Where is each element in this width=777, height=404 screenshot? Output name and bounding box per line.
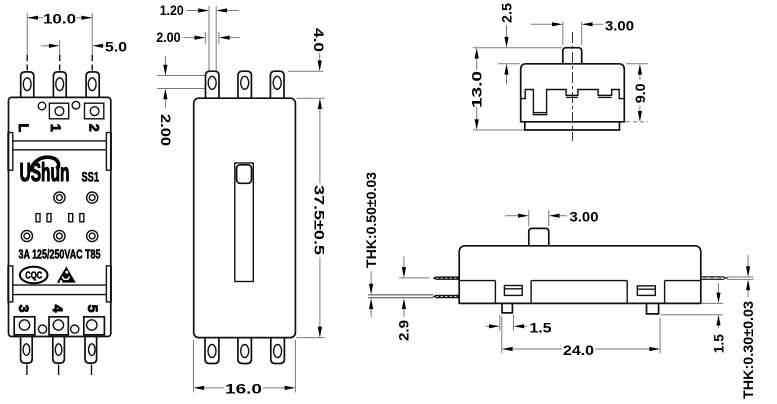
svg-text:1.5: 1.5 bbox=[710, 334, 726, 353]
side body outline bbox=[459, 246, 701, 304]
terminal edge tick left bbox=[204, 32, 206, 44]
dimension 3.00 top bbox=[531, 17, 634, 33]
knob top extension line bbox=[473, 47, 562, 49]
svg-text:2: 2 bbox=[87, 124, 103, 132]
UShun logo swoosh bbox=[30, 157, 59, 172]
left mounting foot bbox=[502, 303, 512, 313]
svg-text:1.5: 1.5 bbox=[530, 319, 552, 335]
svg-text:THK:0.50±0.03: THK:0.50±0.03 bbox=[363, 172, 379, 268]
rear terminal 3 bbox=[270, 71, 284, 98]
vent slot 3 bbox=[69, 214, 73, 222]
foot width extension left bbox=[499, 315, 501, 331]
svg-text:1.20: 1.20 bbox=[160, 2, 184, 18]
dimension 1.20 bbox=[160, 2, 239, 18]
right terminal pin bbox=[701, 277, 727, 280]
top terminal pin 3 bbox=[86, 55, 99, 97]
svg-text:3.00: 3.00 bbox=[570, 209, 599, 225]
svg-text:2.5: 2.5 bbox=[499, 3, 515, 23]
foot bottom extension right bbox=[661, 314, 723, 316]
contact square 1 with circle bbox=[49, 103, 68, 119]
dimension 13.0 bbox=[469, 48, 485, 130]
extension line middle terminal center bbox=[59, 40, 61, 55]
svg-text:9.0: 9.0 bbox=[632, 83, 648, 103]
internal stepped profile bbox=[521, 90, 625, 115]
dimension 4.0 bbox=[311, 28, 327, 71]
vent slot 4 bbox=[80, 214, 84, 222]
dimension 37.5±0.5 bbox=[311, 98, 327, 337]
svg-text:16.0: 16.0 bbox=[225, 381, 262, 397]
top terminal pin 2 bbox=[53, 55, 66, 97]
dimension 2.5 bbox=[499, 3, 515, 84]
base pedestal bbox=[525, 122, 620, 130]
svg-text:2.9: 2.9 bbox=[396, 320, 412, 341]
lower right side tab bbox=[106, 266, 111, 302]
right pocket wall a bbox=[626, 281, 628, 304]
svg-text:3A 125/250VAC T85: 3A 125/250VAC T85 bbox=[19, 247, 101, 262]
right mounting foot bbox=[647, 303, 659, 314]
side view: switch profile with terminals bbox=[363, 172, 756, 399]
terminal top extension line right bbox=[288, 70, 324, 72]
actuator knob bbox=[563, 48, 582, 64]
svg-text:5: 5 bbox=[85, 305, 101, 313]
width extension line right bbox=[294, 340, 296, 393]
top view: switch end profile bbox=[469, 3, 648, 141]
foot width extension right bbox=[512, 315, 514, 331]
svg-text:2.00: 2.00 bbox=[158, 114, 174, 146]
lower separator line 1 bbox=[13, 284, 107, 286]
pocket floor line b bbox=[566, 96, 578, 98]
pocket floor line c bbox=[598, 96, 612, 98]
small circle between 3-4 bbox=[38, 325, 46, 333]
upper separator line 2 bbox=[13, 149, 107, 151]
dimension 24.0 bbox=[502, 342, 660, 358]
terminal thickness extension bottom right bbox=[727, 278, 754, 280]
dimension 10.0 bbox=[27, 11, 92, 27]
svg-text:3.00: 3.00 bbox=[605, 17, 634, 33]
terminal thickness extension top right bbox=[727, 276, 754, 278]
hole width extension line right bbox=[215, 6, 217, 71]
extension line left terminal center bbox=[26, 13, 28, 55]
small circle top a bbox=[38, 102, 46, 110]
upper terminal extension line bbox=[399, 277, 429, 279]
base separation line segment a bbox=[459, 280, 495, 282]
terminal box 5 bbox=[84, 317, 105, 335]
hole height extension line bottom bbox=[157, 88, 205, 90]
dimension THK:0.50±0.03 bbox=[363, 172, 379, 317]
lower separator line 2 bbox=[13, 294, 107, 296]
rivet circle row1 left bbox=[54, 192, 65, 203]
knob width extension left bbox=[562, 22, 564, 45]
bottom terminal pin 3 bbox=[21, 337, 33, 376]
dimension 16.0 bbox=[193, 381, 295, 397]
slide slot bbox=[235, 163, 254, 282]
svg-text:SS1: SS1 bbox=[82, 169, 100, 185]
span extension left bbox=[501, 316, 503, 354]
dimension 9.0 bbox=[632, 64, 648, 122]
svg-text:CQC: CQC bbox=[25, 271, 42, 282]
rear bottom terminal 2 bbox=[238, 338, 252, 364]
svg-text:37.5±0.5: 37.5±0.5 bbox=[311, 185, 327, 255]
switch body outline bbox=[9, 97, 111, 336]
svg-text:5.0: 5.0 bbox=[105, 39, 127, 55]
body bottom extension right bbox=[702, 302, 723, 304]
extension line right terminal center bbox=[91, 13, 93, 55]
dimension 2.00 left vertical bbox=[158, 56, 174, 146]
rear terminal 1 bbox=[206, 71, 220, 98]
body bottom extension line right bbox=[626, 121, 648, 123]
terminal edge tick right bbox=[218, 32, 220, 44]
hole height extension line top bbox=[157, 75, 205, 77]
centerline bbox=[572, 32, 574, 141]
upper separator line 1 bbox=[13, 140, 107, 142]
left pocket wall a bbox=[494, 281, 496, 304]
svg-text:1: 1 bbox=[48, 124, 64, 132]
body bottom extension line right bbox=[297, 337, 325, 339]
svg-text:4: 4 bbox=[50, 305, 66, 313]
middle view: switch rear with slot bbox=[156, 2, 327, 397]
rivet circle row2 right bbox=[87, 230, 98, 241]
right pocket wall b bbox=[664, 281, 666, 304]
knob width extension right bbox=[548, 210, 550, 226]
svg-text:2.00: 2.00 bbox=[156, 29, 181, 45]
rear terminal 2 bbox=[238, 71, 251, 98]
body top extension line right bbox=[297, 97, 325, 99]
upper right side tab bbox=[106, 133, 111, 171]
rear bottom terminal 1 bbox=[205, 338, 219, 364]
side actuator knob bbox=[529, 228, 549, 245]
rear body outline bbox=[194, 98, 296, 337]
dimension 1.5 foot bbox=[486, 319, 552, 335]
bottom terminal pin 5 bbox=[85, 337, 97, 376]
knob width extension right bbox=[581, 22, 583, 45]
dimension 3.00 side bbox=[505, 209, 599, 225]
dimension 2.00 top bbox=[156, 29, 240, 45]
rivet circle row1 right bbox=[87, 192, 98, 203]
svg-text:24.0: 24.0 bbox=[563, 342, 594, 358]
body top extension line left bbox=[498, 63, 520, 65]
rivet circle row2 left bbox=[21, 230, 32, 241]
small circle between 4-5 bbox=[71, 325, 79, 333]
svg-text:4.0: 4.0 bbox=[311, 28, 327, 52]
right terminal clamp detail bbox=[637, 286, 655, 296]
base separation line segment b bbox=[531, 280, 627, 282]
svg-text:13.0: 13.0 bbox=[469, 71, 485, 108]
body top extension line right bbox=[626, 63, 648, 65]
left terminal clamp detail bbox=[504, 286, 522, 296]
lower left terminal blade bbox=[368, 295, 459, 299]
knob width extension left bbox=[528, 210, 530, 226]
span extension right bbox=[659, 318, 661, 354]
bottom terminal pin 4 bbox=[53, 337, 65, 376]
base separation line segment c bbox=[665, 280, 701, 282]
lower left side tab bbox=[8, 266, 13, 302]
pocket floor line a bbox=[533, 112, 546, 114]
dimension 2.9 bbox=[396, 257, 412, 342]
svg-text:3: 3 bbox=[16, 305, 32, 313]
width extension line left bbox=[192, 340, 194, 393]
base bottom extension line left bbox=[473, 129, 524, 131]
upper left side tab bbox=[8, 133, 13, 171]
dimension 1.5 right bbox=[710, 283, 726, 353]
left pocket wall b bbox=[530, 281, 532, 304]
slider knob in slot bbox=[237, 165, 252, 184]
small circle top b bbox=[72, 101, 80, 109]
front view: switch face bbox=[8, 11, 127, 376]
terminal box 3 bbox=[14, 317, 35, 335]
rivet circle row2 middle bbox=[54, 230, 65, 241]
upper left terminal blade bbox=[432, 276, 459, 280]
svg-text:THK:0.30±0.03: THK:0.30±0.03 bbox=[740, 301, 756, 399]
svg-text:L: L bbox=[16, 124, 32, 133]
hole width extension line left bbox=[208, 6, 210, 71]
vent slot 2 bbox=[47, 214, 51, 222]
top terminal pin 1 bbox=[21, 55, 34, 97]
dimension THK:0.30±0.03 bbox=[740, 255, 756, 399]
terminal box 4 bbox=[49, 317, 68, 335]
CQC certification oval bbox=[20, 267, 48, 284]
svg-text:UShun: UShun bbox=[20, 157, 70, 187]
triangle certification mark bbox=[57, 267, 76, 284]
vent slot 1 bbox=[36, 214, 40, 222]
rear bottom terminal 3 bbox=[271, 338, 285, 364]
contact square 2 with circle bbox=[85, 103, 104, 119]
svg-text:10.0: 10.0 bbox=[43, 11, 76, 27]
end body outline bbox=[521, 64, 625, 122]
dimension 5.0 bbox=[41, 39, 127, 55]
